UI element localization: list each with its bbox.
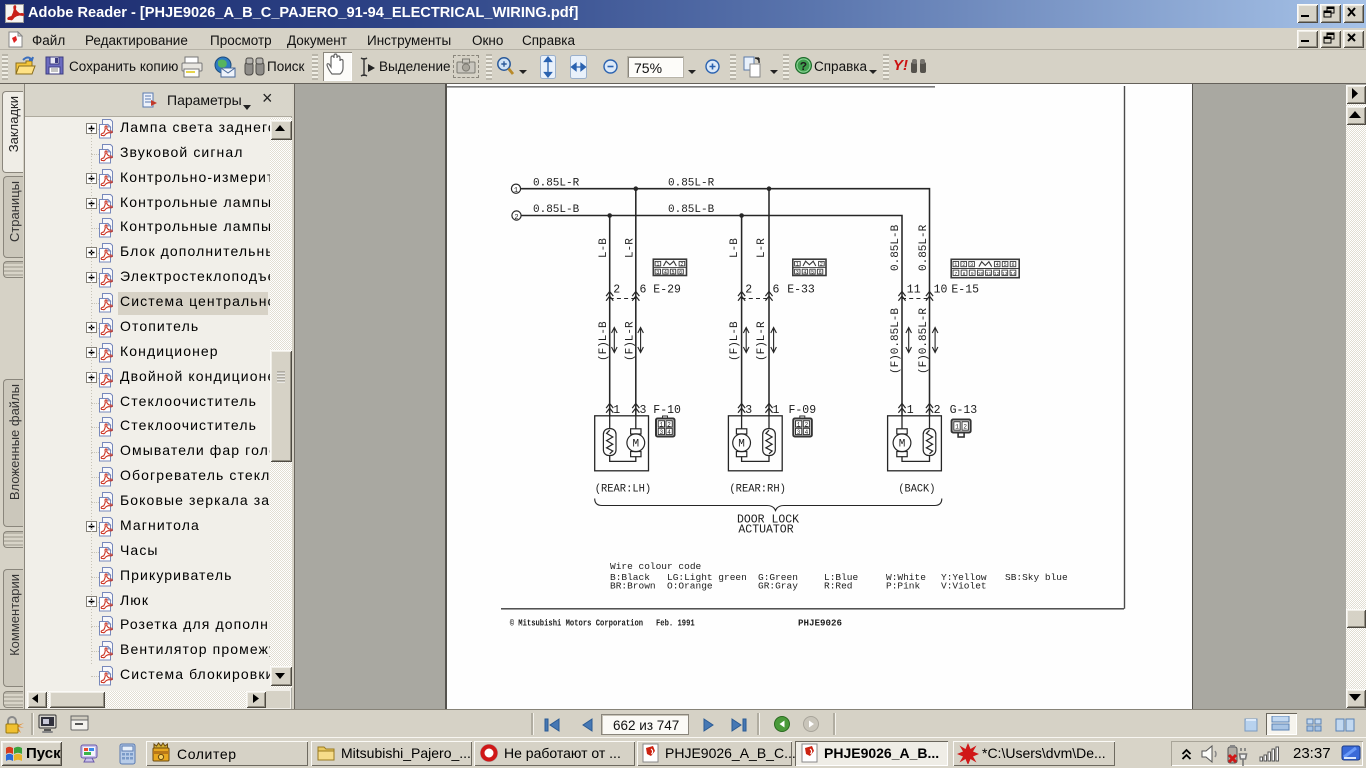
svg-text:F-10: F-10 — [653, 404, 681, 417]
svg-text:SB:Sky blue: SB:Sky blue — [1005, 572, 1068, 583]
svg-text:1: 1 — [796, 262, 799, 268]
actuator (BACK) internal wiring — [902, 416, 930, 462]
svg-text:6: 6 — [640, 284, 647, 297]
svg-text:8: 8 — [963, 271, 966, 277]
direction arrow (both ways) — [612, 328, 618, 353]
svg-text:2: 2 — [745, 284, 752, 297]
svg-text:L-R: L-R — [625, 238, 637, 258]
svg-text:1: 1 — [907, 404, 914, 417]
direction arrow (both ways) — [771, 328, 777, 353]
svg-text:3: 3 — [656, 270, 659, 276]
footer rule — [501, 608, 1124, 610]
direction arrow (both ways) — [743, 328, 749, 353]
junction on L-R bus at E-33 branch — [767, 186, 772, 191]
svg-text:(F)L-B: (F)L-B — [729, 321, 741, 361]
svg-text:ACTUATOR: ACTUATOR — [738, 524, 793, 537]
connector F-10 pin arrows — [606, 404, 639, 413]
svg-text:E-29: E-29 — [653, 284, 681, 297]
svg-text:3: 3 — [796, 270, 799, 276]
svg-text:E-15: E-15 — [951, 284, 979, 297]
junction on L-B bus at E-33 branch — [739, 213, 744, 218]
vertical scrollbar — [270, 118, 292, 688]
svg-text:1: 1 — [797, 421, 801, 428]
wire L-R to REAR:LH actuator — [635, 189, 637, 416]
bookmarks panel — [24, 84, 291, 709]
brace grouping door lock actuators — [595, 499, 942, 511]
actuator (REAR:LH) motor M — [627, 429, 645, 457]
svg-text:2: 2 — [934, 404, 941, 417]
svg-text:2: 2 — [963, 424, 967, 431]
actuator (REAR:RH) solenoid coil — [763, 429, 776, 456]
actuator (REAR:RH) motor M — [733, 429, 751, 457]
svg-text:BR:Brown: BR:Brown — [610, 581, 656, 592]
connector E-29 pass-through arrows — [606, 292, 639, 301]
svg-text:O:Orange: O:Orange — [667, 581, 713, 592]
svg-text:4: 4 — [667, 429, 671, 436]
svg-text:10: 10 — [934, 284, 948, 297]
door lock actuator (REAR:LH) box — [595, 416, 649, 471]
actuator (BACK) motor M — [893, 429, 911, 457]
horizontal scrollbar — [27, 691, 290, 708]
svg-text:3: 3 — [745, 404, 752, 417]
document area — [295, 84, 1366, 709]
svg-text:2: 2 — [962, 262, 965, 268]
svg-text:0.85L-B: 0.85L-B — [533, 204, 580, 216]
svg-text:L-R: L-R — [756, 238, 768, 258]
node 1 terminal — [511, 184, 520, 195]
svg-text:(F)L-R: (F)L-R — [625, 321, 637, 361]
svg-text:2: 2 — [514, 214, 518, 222]
svg-text:Wire colour code: Wire colour code — [610, 561, 702, 572]
svg-text:3: 3 — [797, 429, 801, 436]
svg-text:2: 2 — [820, 262, 823, 268]
svg-text:4: 4 — [803, 270, 806, 276]
svg-text:6: 6 — [1011, 262, 1014, 268]
bus wire 0.85L-B from node 2 — [521, 216, 902, 416]
svg-text:1: 1 — [514, 187, 518, 195]
svg-text:5: 5 — [1004, 262, 1007, 268]
svg-text:0.85L-R: 0.85L-R — [668, 177, 715, 189]
svg-text:2: 2 — [680, 262, 683, 268]
svg-text:10: 10 — [978, 271, 984, 277]
svg-text:(F)L-B: (F)L-B — [598, 321, 610, 361]
svg-text:(REAR:RH): (REAR:RH) — [729, 484, 786, 496]
svg-text:2: 2 — [805, 421, 809, 428]
svg-text:R:Red: R:Red — [824, 581, 853, 592]
svg-text:M: M — [899, 439, 906, 451]
svg-text:0.85L-B: 0.85L-B — [890, 224, 902, 271]
direction arrow (both ways) — [932, 328, 938, 353]
svg-text:6: 6 — [819, 270, 822, 276]
svg-text:3: 3 — [640, 404, 647, 417]
connector E-33 pass-through arrows — [738, 292, 773, 301]
svg-text:2: 2 — [613, 284, 620, 297]
wire L-B to REAR:LH actuator — [609, 216, 611, 416]
junction on L-R bus at E-29 branch — [634, 186, 639, 191]
svg-text:F-09: F-09 — [789, 404, 817, 417]
svg-text:14: 14 — [1010, 271, 1016, 277]
svg-text:3: 3 — [970, 262, 973, 268]
diagram frame top border — [447, 86, 935, 88]
svg-text:PHJE9026: PHJE9026 — [798, 618, 842, 629]
svg-text:P:Pink: P:Pink — [886, 581, 921, 592]
svg-text:6: 6 — [679, 270, 682, 276]
svg-text:G-13: G-13 — [950, 404, 978, 417]
svg-text:7: 7 — [955, 271, 958, 277]
svg-text:L-B: L-B — [729, 238, 741, 258]
wire L-B to REAR:RH actuator — [741, 216, 743, 416]
document vertical scrollbar — [1346, 85, 1366, 708]
svg-text:0.85L-R: 0.85L-R — [533, 177, 580, 189]
svg-text:4: 4 — [805, 429, 809, 436]
svg-text:(F)0.85L-B: (F)0.85L-B — [890, 308, 902, 374]
actuator (REAR:LH) internal wiring — [610, 416, 636, 462]
window buttons child — [1297, 30, 1318, 48]
connector E-33 pin-layout icon — [793, 259, 826, 275]
svg-text:11: 11 — [986, 271, 992, 277]
svg-text:0.85L-R: 0.85L-R — [918, 224, 930, 271]
direction arrow (both ways) — [638, 328, 644, 353]
direction arrow (both ways) — [906, 328, 912, 353]
svg-text:11: 11 — [907, 284, 921, 297]
svg-text:(REAR:LH): (REAR:LH) — [595, 484, 652, 496]
actuator (BACK) solenoid coil — [923, 429, 936, 456]
svg-text:1: 1 — [659, 421, 663, 428]
svg-text:1: 1 — [613, 404, 620, 417]
connector F-09 pin arrows — [738, 404, 773, 413]
svg-text:1: 1 — [955, 424, 959, 431]
bus wire 0.85L-R from node 1 — [521, 189, 930, 416]
svg-text:GR:Gray: GR:Gray — [758, 581, 798, 592]
svg-text:M: M — [738, 439, 745, 451]
svg-text:1: 1 — [656, 262, 659, 268]
svg-text:1: 1 — [773, 404, 780, 417]
diagram frame right border — [1124, 86, 1126, 609]
splitter — [292, 84, 295, 709]
svg-text:L-B: L-B — [598, 238, 610, 258]
svg-text:9: 9 — [971, 271, 974, 277]
connector E-15 pin-layout icon — [951, 259, 1019, 277]
door lock actuator (BACK) box — [888, 416, 942, 471]
svg-text:1: 1 — [954, 262, 957, 268]
svg-text:13: 13 — [1002, 271, 1008, 277]
svg-text:© Mitsubishi Motors Corporatio: © Mitsubishi Motors Corporation Feb. 199… — [510, 618, 695, 629]
svg-text:12: 12 — [994, 271, 1000, 277]
connector G-13 pin-layout icon — [952, 420, 971, 438]
window buttons title — [1297, 4, 1318, 23]
svg-text:V:Violet: V:Violet — [941, 581, 987, 592]
svg-text:3: 3 — [659, 429, 663, 436]
actuator (REAR:RH) internal wiring — [742, 416, 769, 462]
connector F-09 pin-layout icon — [793, 416, 812, 437]
svg-text:E-33: E-33 — [787, 284, 815, 297]
wire L-R to REAR:RH actuator — [768, 189, 770, 416]
actuator (REAR:LH) solenoid coil — [603, 429, 616, 456]
svg-text:5: 5 — [671, 270, 674, 276]
svg-text:(F)0.85L-R: (F)0.85L-R — [918, 308, 930, 374]
svg-text:2: 2 — [667, 421, 671, 428]
node 2 terminal — [512, 211, 521, 222]
wire colour code legend — [610, 561, 1068, 592]
connector E-29 pin-layout icon — [653, 259, 686, 275]
junction on L-B bus at E-29 branch — [607, 213, 612, 218]
svg-text:4: 4 — [664, 270, 667, 276]
svg-text:(BACK): (BACK) — [898, 484, 935, 496]
svg-text:M: M — [632, 439, 639, 451]
caption DOOR LOCK ACTUATOR — [737, 514, 799, 537]
vertical tab strip — [0, 84, 24, 709]
connector E-15 pass-through arrows — [898, 292, 933, 301]
connector F-10 pin-layout icon — [656, 416, 675, 437]
svg-text:(F)L-R: (F)L-R — [756, 321, 768, 361]
svg-text:5: 5 — [811, 270, 814, 276]
svg-text:4: 4 — [996, 262, 999, 268]
svg-text:6: 6 — [773, 284, 780, 297]
svg-text:?: ? — [800, 60, 807, 74]
svg-text:0.85L-B: 0.85L-B — [668, 204, 715, 216]
pdf page — [445, 84, 1193, 709]
door lock actuator (REAR:RH) box — [728, 416, 782, 471]
connector G-13 pin arrows — [898, 404, 933, 413]
